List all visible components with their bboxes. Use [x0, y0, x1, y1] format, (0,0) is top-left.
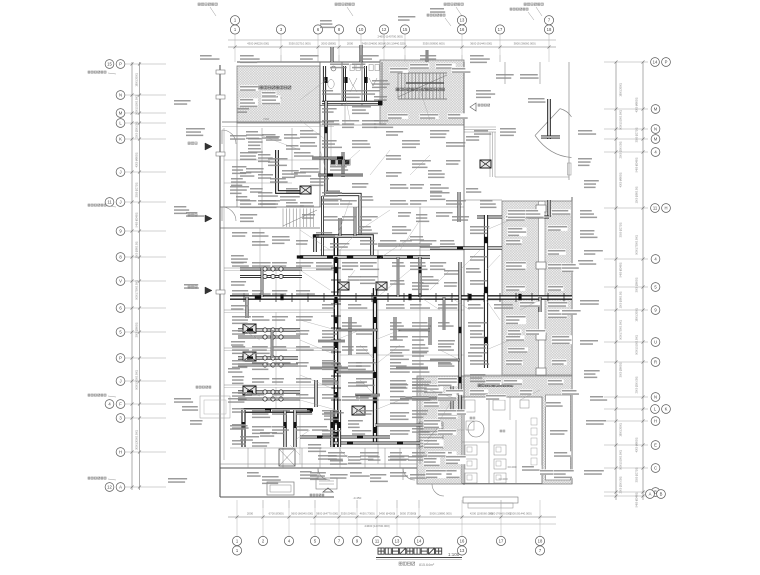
duct: upper-left branch [277, 150, 310, 192]
doors on bottom wall [318, 468, 330, 480]
duct grilles [331, 267, 341, 269]
svg-text:3000 [36000]: 3000 [36000] [636, 277, 639, 292]
svg-text:2000 [76660.000]: 2000 [76660.000] [489, 512, 511, 516]
svg-text:2000 [300.000]: 2000 [300.000] [620, 141, 623, 158]
shaft with X [279, 449, 295, 466]
svg-text:1800 [3000]: 1800 [3000] [620, 83, 623, 97]
hatched zone A (top-left plant room) [237, 66, 320, 123]
bathroom partitions and fixtures [488, 397, 490, 484]
svg-text:1500 [5800.00]: 1500 [5800.00] [636, 186, 639, 203]
duct: small riser right of stair [547, 99, 551, 139]
entrance arrows left 风入口 [205, 143, 212, 150]
svg-text:5000 [50000.000]: 5000 [50000.000] [136, 370, 139, 390]
svg-text:5450 [63450]: 5450 [63450] [636, 157, 639, 172]
svg-text:A: A [649, 492, 652, 497]
leader lines [260, 135, 300, 150]
exit door marker 安全出口 [470, 103, 476, 111]
svg-text:13: 13 [395, 539, 400, 544]
svg-text:V: V [119, 279, 122, 284]
curved feature wall (fan sector) [535, 109, 560, 136]
duct: second central vertical [373, 288, 377, 442]
svg-text:5450 [54600.000]: 5450 [54600.000] [362, 42, 384, 46]
svg-text:4300 [48000]: 4300 [48000] [636, 97, 639, 112]
building outer wall left [219, 65, 221, 497]
svg-text:N: N [654, 395, 657, 400]
svg-text:3550 [52710.000]: 3550 [52710.000] [289, 42, 311, 46]
toilet fixtures [331, 66, 336, 71]
bottom-left room partitions [247, 448, 249, 468]
duct: bottom-left verticals [241, 410, 245, 447]
svg-text:A: A [119, 485, 122, 490]
duct: mid connectors [419, 257, 422, 297]
svg-text:3550 [52710]: 3550 [52710] [636, 467, 639, 482]
svg-text:2000 [300.000]: 2000 [300.000] [620, 476, 623, 493]
svg-text:11: 11 [107, 200, 112, 205]
duct: room branch stubs center [318, 340, 345, 343]
svg-text:11: 11 [653, 206, 658, 211]
svg-text:5800 [64770.000]: 5800 [64770.000] [316, 512, 338, 516]
svg-text:1:100: 1:100 [448, 552, 460, 557]
svg-text:N: N [119, 93, 122, 98]
svg-text:17: 17 [498, 27, 503, 32]
svg-text:5050 [73580]: 5050 [73580] [400, 512, 417, 516]
right mid rooms near hatch [464, 199, 502, 201]
svg-text:16: 16 [460, 27, 465, 32]
svg-text:815.64m²: 815.64m² [419, 563, 435, 567]
svg-text:-0.450: -0.450 [353, 496, 362, 500]
svg-text:5000 [51000.000]: 5000 [51000.000] [620, 110, 623, 130]
small pier below arc [568, 163, 572, 175]
svg-text:U: U [654, 340, 657, 345]
svg-text:1800 [3000]: 1800 [3000] [636, 308, 639, 322]
svg-text:3600 [91440.000]: 3600 [91440.000] [470, 42, 492, 46]
svg-text:1500 [5800.00]: 1500 [5800.00] [136, 241, 139, 258]
duct: bathroom exhaust risers [451, 380, 454, 410]
axis label left y=480 [88, 477, 106, 479]
basins row [331, 160, 336, 165]
svg-text:12: 12 [382, 27, 387, 32]
annotation labels (simulated small grey text stacks) [246, 131, 258, 133]
duct: vertical through right hatch [484, 215, 488, 368]
mid rooms walls [319, 101, 321, 207]
svg-text:3550 [5450]: 3550 [5450] [341, 512, 356, 516]
left wall door openings [222, 130, 236, 144]
axis label 建筑轴线编号 (top x=347) [335, 3, 354, 5]
svg-text:H: H [654, 419, 657, 424]
svg-text:14: 14 [417, 539, 422, 544]
axis label 建筑轴线编号 (top x=456) [444, 3, 463, 5]
svg-text:6700 [8360]: 6700 [8360] [269, 512, 284, 516]
svg-text:16: 16 [460, 539, 465, 544]
duct: top toilets header [322, 101, 381, 104]
svg-text:7144: 7144 [263, 117, 269, 121]
svg-text:M: M [654, 107, 658, 112]
axis label left y=397 [88, 394, 106, 396]
svg-text:B: B [660, 492, 663, 497]
svg-text:±0.000: ±0.000 [498, 477, 507, 481]
svg-text:2000 [300.000]: 2000 [300.000] [636, 376, 639, 393]
svg-text:5000 [51000.000]: 5000 [51000.000] [636, 335, 639, 355]
right dimension strip [615, 62, 617, 500]
svg-text:15: 15 [403, 27, 408, 32]
duct: bottom-left big horizontal [241, 408, 312, 413]
svg-text:12: 12 [107, 485, 112, 490]
svg-text:3000 [36000]: 3000 [36000] [136, 322, 139, 337]
hatched zone B (bottom toilets) [417, 376, 572, 484]
svg-text:5450 [64000]: 5450 [64000] [379, 512, 396, 516]
svg-text:5450 [63450]: 5450 [63450] [136, 212, 139, 227]
extra leader lines center [336, 200, 350, 240]
svg-text:P: P [665, 60, 668, 65]
svg-text:1800 [3000]: 1800 [3000] [620, 423, 623, 437]
svg-text:4650 [7300]: 4650 [7300] [360, 512, 375, 516]
svg-text:1800 [3000]: 1800 [3000] [136, 73, 139, 87]
building bottom wall [220, 467, 462, 469]
fans / AHUs [243, 324, 256, 333]
svg-text:5600 [66040.000]: 5600 [66040.000] [291, 512, 313, 516]
svg-text:5500 [91440.000]: 5500 [91440.000] [510, 512, 532, 516]
svg-text:K: K [665, 407, 668, 412]
svg-text:3550 [52710]: 3550 [52710] [620, 222, 623, 237]
svg-text:5000 [73000.000]: 5000 [73000.000] [636, 235, 639, 255]
duct: left stacked branch runs [240, 268, 302, 271]
misc axis tie lines inside plan (thin) [280, 55, 282, 62]
svg-text:14: 14 [653, 60, 658, 65]
svg-text:18: 18 [538, 539, 543, 544]
svg-text:3550 [52710]: 3550 [52710] [136, 182, 139, 197]
bottom axis bubbles [232, 536, 241, 545]
stair inside zone B [419, 421, 443, 423]
stair treads in zone C [397, 73, 399, 99]
svg-text:24600 [140700.000]: 24600 [140700.000] [378, 35, 403, 39]
duct: long main horizontal corridor run [230, 295, 572, 300]
svg-text:±0.000: ±0.000 [507, 465, 516, 469]
top axis bubbles [230, 25, 239, 34]
svg-text:3000 [36000]: 3000 [36000] [620, 362, 623, 377]
svg-text:2000: 2000 [247, 512, 254, 516]
axis label left y=207 [88, 204, 106, 206]
interior wall stubs top of open area [504, 62, 506, 84]
duct: right edge riser above corridor [458, 192, 461, 222]
corridor walls [220, 206, 320, 208]
svg-text:3000 [30000.000]: 3000 [30000.000] [136, 430, 139, 450]
svg-text:5000 [73000.000]: 5000 [73000.000] [620, 320, 623, 340]
building right edge upper [568, 62, 570, 180]
svg-text:1500 [5800.00]: 1500 [5800.00] [620, 291, 623, 308]
extra dampers [334, 257, 337, 263]
duct: center cross connectors [336, 329, 378, 332]
svg-text:4300 [48226.000]: 4300 [48226.000] [247, 42, 269, 46]
duct: top toilets verticals [323, 66, 326, 102]
svg-text:5450 [63450]: 5450 [63450] [620, 262, 623, 277]
duct: center upper header [315, 236, 372, 255]
duct: main central vertical [334, 238, 339, 447]
svg-text:H: H [664, 206, 667, 211]
svg-text:5000 [10880.000]: 5000 [10880.000] [430, 512, 452, 516]
building top wall [237, 61, 464, 63]
bottom entry steps [463, 497, 518, 503]
svg-text:3550 [52710]: 3550 [52710] [636, 127, 639, 142]
svg-text:5000 [51000.000]: 5000 [51000.000] [620, 450, 623, 470]
svg-text:4100 [10440.520]: 4100 [10440.520] [384, 42, 406, 46]
duct: secondary horizontal run [300, 255, 430, 258]
ramp bottom-left 残疾人坡道 [200, 396, 230, 418]
roof edge stepped lines [464, 126, 496, 128]
drawing title 改造一层排风平面图 1:100 [378, 548, 442, 554]
axis label 建筑轴线编号 (top x=210) [198, 3, 217, 5]
svg-text:P: P [119, 62, 122, 67]
bottom dimension line [228, 516, 556, 518]
svg-text:2000: 2000 [347, 42, 354, 46]
axis label 建筑轴线编号 (top x=536) [524, 3, 543, 5]
duct: riser stubs above top wall [331, 47, 334, 62]
duct: L-branch above [314, 380, 317, 407]
svg-text:N: N [654, 127, 657, 132]
svg-text:5450 [63450]: 5450 [63450] [636, 492, 639, 507]
svg-text:10: 10 [359, 27, 364, 32]
svg-text:J: J [119, 379, 121, 384]
inline fans (circles) on branch ducts [263, 267, 267, 271]
hatched zone C (top stair block) [380, 60, 464, 125]
small stair mid-left [282, 209, 284, 228]
svg-text:C: C [654, 466, 657, 471]
top dimension line [228, 46, 556, 48]
subtitle 改造面积 815.64m2 [399, 562, 415, 565]
svg-text:5000 [51000.000]: 5000 [51000.000] [136, 95, 139, 115]
duct: left risers near corridor [246, 297, 249, 318]
duct: right hatch verticals stubs [547, 200, 550, 217]
top toilet block walls [319, 62, 321, 106]
svg-text:4300 [48000]: 4300 [48000] [636, 437, 639, 452]
svg-text:M: M [654, 137, 658, 142]
dampers (small solid marks) [324, 127, 327, 133]
svg-text:13: 13 [460, 18, 465, 23]
svg-text:5000 [73000.000]: 5000 [73000.000] [136, 280, 139, 300]
left dimension strip [131, 62, 133, 490]
svg-text:17: 17 [499, 539, 504, 544]
duct: bottom-left vertical pair 2 [330, 410, 333, 447]
axis label left y=74 [88, 71, 106, 73]
duct: top-center risers [354, 207, 357, 236]
svg-text:3550 [90900.600]: 3550 [90900.600] [423, 42, 445, 46]
svg-text:3800 [36060.000]: 3800 [36060.000] [514, 42, 536, 46]
svg-text:15: 15 [107, 62, 112, 67]
svg-text:J: J [119, 170, 121, 175]
svg-text:4300 [48000]: 4300 [48000] [620, 172, 623, 187]
duct: right-zone horizontal [430, 246, 502, 249]
svg-text:J: J [119, 200, 121, 205]
svg-text:E: E [654, 443, 657, 448]
svg-text:11: 11 [375, 539, 380, 544]
svg-text:4300 [48000]: 4300 [48000] [136, 152, 139, 167]
duct: right-bottom vertical [458, 262, 461, 410]
svg-text:M: M [119, 111, 123, 116]
duct: riser from toilets down [324, 101, 327, 196]
svg-text:H: H [119, 450, 122, 455]
duct: elbow to corridor riser [326, 195, 360, 237]
svg-text:R: R [654, 360, 657, 365]
svg-text:2000 [5800]: 2000 [5800] [321, 42, 336, 46]
svg-text:2000 [300.000]: 2000 [300.000] [136, 121, 139, 138]
svg-text:K: K [119, 137, 122, 142]
building right edge lower [571, 197, 573, 484]
svg-text:13: 13 [460, 548, 465, 553]
hatched zone R (right corridor block) [502, 201, 572, 375]
svg-text:P: P [119, 356, 122, 361]
center zone partition walls [320, 206, 464, 208]
svg-text:F: F [119, 402, 122, 407]
waste exit canopy [267, 482, 294, 495]
svg-text:18: 18 [547, 27, 552, 32]
duct: bottom central horizontals [300, 436, 390, 439]
